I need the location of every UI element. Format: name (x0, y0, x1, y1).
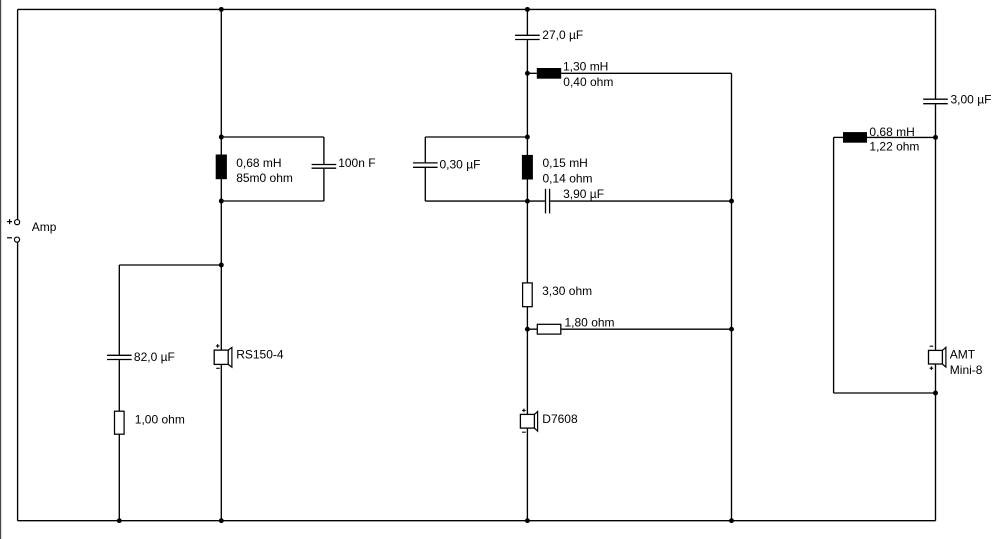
wire 100nF loop top (221, 136, 324, 138)
wire woofer rail (220, 9, 222, 520)
wire left rail lower (17, 242, 19, 521)
resistor R 1,80 ohm (537, 324, 561, 334)
inductor L 0,68 mH right (843, 132, 867, 143)
label 0,15 mH / 0,14 ohm (543, 156, 593, 185)
screen left edge (0, 0, 2, 539)
wire notch rail (833, 137, 835, 393)
svg-text:1,80 ohm: 1,80 ohm (565, 315, 615, 329)
svg-text:3,00 µF: 3,00 µF (951, 93, 992, 107)
node top woofer rail (219, 7, 224, 12)
svg-text:1,30 mH: 1,30 mH (563, 60, 608, 74)
capacitor C 82,0 uF (107, 355, 132, 359)
svg-text:0,30 µF: 0,30 µF (440, 157, 481, 171)
svg-text:0,68 mH: 0,68 mH (236, 156, 281, 170)
wire right rail upper (935, 9, 937, 98)
svg-text:0,14 ohm: 0,14 ohm (543, 171, 593, 185)
wire to 1,30 mH (527, 72, 536, 74)
speaker D7608 (520, 409, 537, 433)
wire left rail upper (17, 9, 19, 219)
node notch join (933, 391, 938, 396)
label 0,68 mH / 85m0 ohm (236, 156, 293, 185)
wire 100nF loop bottom (221, 200, 324, 202)
svg-text:0,40 ohm: 0,40 ohm (563, 75, 613, 89)
svg-text:AMT: AMT (950, 347, 976, 361)
capacitor C 27,0 uF (515, 35, 540, 39)
wire to 3,90uF (527, 200, 545, 202)
svg-text:3,30 ohm: 3,30 ohm (542, 284, 592, 298)
node woofer rail bottom (219, 518, 224, 523)
wire 3,90uF to inner rail (550, 200, 731, 202)
wire shunt rail lower (118, 434, 120, 521)
wire inner right rail (731, 73, 733, 520)
node mid rail bottom (525, 518, 530, 523)
node inner rail upper (729, 199, 734, 204)
inductor L 0,68 mH (216, 155, 227, 180)
wire 1,30 mH to right rail (561, 72, 731, 74)
svg-text:27,0 µF: 27,0 µF (542, 28, 583, 42)
wire mid rail upper (526, 9, 528, 34)
svg-text:1,22 ohm: 1,22 ohm (869, 140, 919, 154)
svg-text:100n F: 100n F (338, 156, 375, 170)
node attenuator tap (525, 327, 530, 332)
node top mid rail (525, 7, 530, 12)
node woofer rail mid (219, 263, 224, 268)
svg-text:0,15 mH: 0,15 mH (543, 156, 588, 170)
wire right rail lower (935, 104, 937, 520)
wire notch bottom (834, 392, 936, 394)
wire shunt rail mid (118, 360, 120, 411)
label AMT Mini-8 (950, 347, 983, 377)
amp - terminal (7, 237, 20, 242)
capacitor C 0,30 uF (413, 137, 438, 201)
amp + terminal (7, 219, 20, 225)
capacitor C 3,90 uF (546, 189, 550, 214)
node mid loop top (525, 135, 530, 140)
svg-text:85m0 ohm: 85m0 ohm (236, 171, 293, 185)
node shunt bottom (117, 518, 122, 523)
node right rail tap (933, 135, 938, 140)
node woofer loop top (219, 135, 224, 140)
node inner rail mid (729, 327, 734, 332)
svg-text:82,0 µF: 82,0 µF (134, 350, 175, 364)
wire shunt rail upper (118, 265, 120, 355)
resistor R 3,30 ohm (523, 283, 533, 307)
label 1,30 mH / 0,40 ohm (563, 60, 613, 90)
capacitor 100n F (312, 137, 337, 201)
resistor R 1,00 ohm (115, 411, 125, 434)
wire shunt branch top (119, 264, 221, 266)
wire attenuator row (527, 328, 731, 330)
svg-text:Mini-8: Mini-8 (950, 363, 983, 377)
wire top bus (18, 8, 936, 10)
label 0,68 mH / 1,22 ohm (869, 125, 919, 154)
svg-text:Amp: Amp (32, 220, 57, 234)
speaker RS150-4 (214, 344, 232, 368)
node woofer loop bottom (219, 199, 224, 204)
svg-text:RS150-4: RS150-4 (236, 348, 284, 362)
svg-text:1,00 ohm: 1,00 ohm (135, 412, 185, 426)
svg-text:3,90 µF: 3,90 µF (563, 187, 604, 201)
capacitor C 3,00 uF (923, 99, 948, 104)
node mid loop bottom (525, 199, 530, 204)
inductor L 1,30 mH (537, 68, 561, 79)
wire 0,30uF loop top (425, 136, 527, 138)
node tweeter tap (525, 71, 530, 76)
wire inductor to right rail (867, 136, 936, 138)
wire notch stub (834, 136, 843, 138)
wire bottom bus (18, 520, 936, 522)
inductor L 0,15 mH (522, 155, 533, 180)
svg-text:D7608: D7608 (542, 412, 578, 426)
speaker AMT Mini-8 (929, 346, 946, 370)
wire 0,30uF loop bottom (425, 200, 527, 202)
wire mid rail (526, 40, 528, 521)
node inner rail bottom (729, 518, 734, 523)
